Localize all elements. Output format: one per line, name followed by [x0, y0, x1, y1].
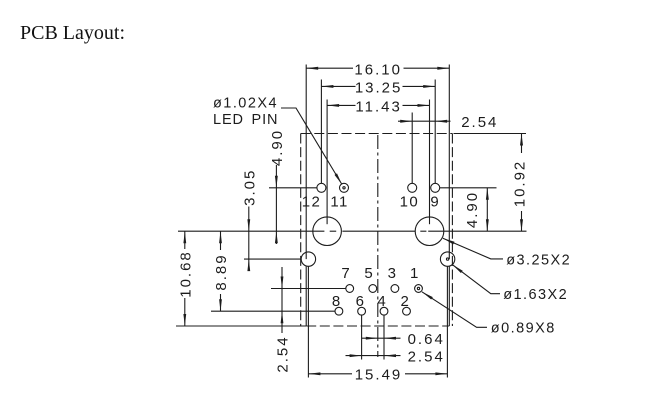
ext line body bottom left [176, 325, 306, 327]
ext line pin 6 [361, 315, 363, 359]
svg-text:2: 2 [401, 293, 411, 310]
svg-text:2.54: 2.54 [461, 114, 498, 131]
label ø0.89X8 with leader [422, 292, 556, 337]
svg-text:0.64: 0.64 [408, 331, 445, 348]
ext line LED pin row right [440, 187, 497, 189]
ext line pin 4 [383, 315, 385, 359]
svg-text:ø1.02X4: ø1.02X4 [213, 96, 278, 112]
ext line side hole left [307, 267, 309, 378]
svg-text:8.89: 8.89 [213, 253, 230, 290]
dimension 0.64 pin 4 offset [362, 331, 445, 348]
vertical center line [377, 135, 379, 357]
svg-text:ø1.63X2: ø1.63X2 [503, 287, 568, 303]
svg-text:PIN: PIN [252, 112, 279, 128]
svg-text:11: 11 [330, 193, 348, 210]
svg-text:10.68: 10.68 [178, 250, 195, 298]
ext line shell top right [454, 133, 527, 135]
svg-text:3.05: 3.05 [242, 169, 259, 206]
svg-text:10: 10 [400, 193, 420, 210]
pin 1 hole [415, 285, 423, 293]
dimension 4.90 LED row to top edge [269, 129, 286, 244]
label LED PIN with leader [213, 96, 342, 185]
ext line pin row 1 left [271, 288, 346, 290]
dimension 2.54 pin row pitch [275, 267, 292, 373]
svg-text:4: 4 [377, 293, 387, 310]
pin 8 hole [335, 307, 343, 315]
svg-text:3: 3 [388, 265, 398, 282]
dimension 2.54 pin pitch [346, 348, 445, 365]
dimension 11.43 mounting hole span [327, 99, 429, 225]
pin 2 hole [403, 307, 411, 315]
dimension 16.10 overall width [306, 61, 449, 78]
dimension 13.25 LED pin span [321, 80, 435, 184]
dimension 8.89 top edge to pin row 2 [213, 231, 230, 311]
dimension 10.68 body height [178, 231, 195, 326]
ext line side hole row left [244, 258, 301, 260]
svg-text:11.43: 11.43 [355, 99, 401, 116]
svg-text:13.25: 13.25 [355, 80, 403, 97]
ext line LED pin row left [269, 187, 317, 189]
title text [20, 22, 125, 45]
dimension 4.90 right LED row to top edge [464, 188, 489, 231]
body outline left edge [305, 65, 307, 327]
dimension 10.92 shell front to top edge [512, 134, 529, 232]
svg-text:7: 7 [341, 265, 351, 282]
LED pin 9 hole [431, 183, 440, 192]
svg-text:12: 12 [302, 193, 322, 210]
svg-text:4.90: 4.90 [269, 129, 286, 166]
label ø3.25X2 with leader [443, 238, 571, 268]
LED pin 12 hole [317, 183, 326, 192]
dimension 15.49 side hole span [308, 367, 447, 384]
svg-text:2.54: 2.54 [408, 348, 445, 365]
svg-text:15.49: 15.49 [355, 367, 403, 384]
svg-text:4.90: 4.90 [464, 191, 481, 228]
hidden shell outline top [301, 133, 453, 135]
body outline right edge [448, 65, 450, 327]
body outline top edge with mounting hole center marks [178, 230, 527, 232]
svg-text:8: 8 [332, 293, 342, 310]
svg-text:5: 5 [364, 265, 374, 282]
hidden shell outline right [451, 134, 453, 327]
pin 4 hole [380, 307, 388, 315]
LED pin 11 hole [340, 183, 349, 192]
dimension 3.05 top edge to side hole [242, 169, 259, 271]
mounting hole right ø3.25 [415, 217, 444, 246]
label ø1.63X2 with leader [452, 265, 568, 304]
ext line side hole right [446, 267, 448, 378]
side hole left ø1.63 [301, 252, 315, 266]
mounting hole left ø3.25 [313, 217, 342, 246]
svg-text:ø3.25X2: ø3.25X2 [506, 252, 571, 268]
ext line pin row 2 left [211, 310, 335, 312]
svg-text:16.10: 16.10 [354, 61, 402, 78]
side hole right ø1.63 [440, 252, 454, 266]
svg-text:10.92: 10.92 [512, 160, 529, 208]
svg-text:LED: LED [213, 112, 244, 128]
svg-text:9: 9 [430, 193, 440, 210]
svg-text:6: 6 [356, 293, 366, 310]
pin 5 hole [369, 285, 377, 293]
pin 3 hole [391, 285, 399, 293]
pin 6 hole [358, 307, 366, 315]
svg-text:ø0.89X8: ø0.89X8 [491, 321, 556, 337]
svg-text:2.54: 2.54 [275, 335, 292, 372]
pin 7 hole [346, 285, 354, 293]
LED pin 10 hole [408, 183, 417, 192]
body outline bottom edge hidden [306, 325, 449, 327]
hidden shell outline left [300, 134, 302, 327]
dimension 2.54 LED pin pitch [398, 113, 498, 184]
svg-text:1: 1 [410, 265, 420, 282]
